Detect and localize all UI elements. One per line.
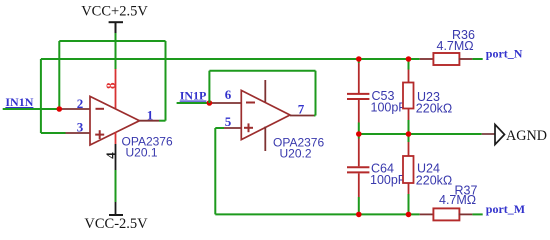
svg-text:U20.2: U20.2 — [280, 147, 312, 161]
capacitor C64 vertical top — [358, 134, 360, 139]
resistor R37 right lead — [459, 213, 473, 215]
power symbol VCC+2.5V — [109, 22, 123, 33]
pin 3 stub — [66, 132, 91, 134]
svg-text:IN1P: IN1P — [180, 89, 207, 103]
wire IN1P — [177, 102, 210, 104]
resistor U23 top lead — [408, 59, 410, 70]
svg-text:4: 4 — [103, 152, 118, 159]
capacitor C64 plates — [347, 166, 369, 168]
wire output2 green — [314, 115, 316, 117]
wire vertical x209 — [208, 71, 210, 103]
op-amp U20.2 minus — [246, 102, 255, 104]
svg-text:5: 5 — [225, 114, 232, 129]
wire pin5 vertical — [214, 128, 216, 214]
wire bottom rail — [215, 213, 419, 215]
wire vertical x315 — [315, 71, 317, 116]
op-amp U20.1 plus — [95, 130, 104, 139]
wire vertical x59 — [58, 41, 60, 109]
junction U23 top — [406, 56, 412, 62]
op-amp U20.1 triangle — [90, 96, 140, 145]
op-amp U20.2 triangle — [241, 90, 290, 139]
svg-text:1: 1 — [147, 107, 154, 122]
resistor U24 body — [403, 156, 414, 183]
svg-text:U20.1: U20.1 — [126, 146, 158, 160]
svg-text:8: 8 — [103, 82, 118, 89]
wire to port_M — [472, 213, 482, 215]
resistor R37 left lead — [420, 213, 433, 215]
svg-text:VCC-2.5V: VCC-2.5V — [84, 216, 148, 232]
wire to port_N — [472, 58, 482, 60]
svg-text:VCC+2.5V: VCC+2.5V — [81, 4, 148, 20]
pin 4 wire black lower — [115, 202, 117, 215]
junction U23 bottom — [406, 131, 412, 137]
wire middle rail — [359, 133, 482, 135]
power port AGND triangle — [495, 125, 505, 145]
op-amp U20.2 power stub top — [264, 80, 266, 102]
wire output1 green — [159, 120, 166, 122]
svg-text:port_N: port_N — [486, 47, 523, 61]
pin 4 wire black upper — [115, 144, 117, 170]
svg-text:6: 6 — [225, 87, 232, 102]
junction C53 top — [356, 56, 362, 62]
junction C53 bottom — [356, 131, 362, 137]
pin 6 stub — [209, 102, 241, 104]
wire vertical x165 — [165, 41, 167, 121]
wire feedback rail 1 — [59, 40, 165, 42]
resistor R36 right lead — [459, 58, 473, 60]
resistor U24 top lead — [408, 134, 410, 142]
junction C64 bottom — [356, 212, 362, 218]
capacitor C53 vertical top — [358, 59, 360, 63]
resistor R37 body — [433, 208, 459, 220]
resistor R36 left lead — [420, 58, 433, 60]
pin 2 stub — [59, 108, 90, 110]
wire IN1N — [3, 108, 60, 110]
resistor U23 bottom lead — [408, 109, 410, 121]
pin 8 stub — [115, 69, 117, 109]
svg-text:220kΩ: 220kΩ — [416, 102, 452, 116]
resistor U24 bottom lead — [408, 183, 410, 194]
svg-text:100pF: 100pF — [371, 101, 407, 115]
wire power vertical green segment — [115, 33, 117, 69]
svg-text:7: 7 — [298, 102, 305, 117]
svg-text:100pF: 100pF — [370, 173, 406, 187]
junction U24 bottom — [406, 212, 412, 218]
svg-text:port_M: port_M — [486, 202, 525, 216]
svg-text:4.7MΩ: 4.7MΩ — [439, 193, 476, 207]
svg-text:220kΩ: 220kΩ — [416, 174, 452, 188]
svg-text:IN1N: IN1N — [5, 95, 33, 109]
svg-text:2: 2 — [77, 96, 84, 111]
op-amp U20.2 plus — [244, 123, 253, 132]
wire rail 2 — [41, 58, 420, 60]
capacitor C53 plates — [347, 93, 369, 95]
pin 5 stub — [224, 127, 241, 129]
pin 4 wire green — [115, 170, 117, 202]
wire pin5 green — [215, 127, 224, 129]
power symbol VCC-2.5V bar — [109, 214, 123, 216]
op-amp U20.1 minus — [96, 108, 105, 110]
resistor U23 body — [403, 83, 414, 109]
wire middle rail dark segment — [482, 133, 495, 135]
op-amp U20.2 power stub bottom — [264, 127, 266, 152]
capacitor C64 vertical bottom — [358, 173, 360, 197]
wire pin3 green — [41, 132, 66, 134]
pin 4 stub — [115, 132, 117, 144]
svg-text:AGND: AGND — [506, 128, 547, 144]
capacitor C53 vertical bottom — [358, 100, 360, 123]
junction node IN1N — [57, 106, 63, 112]
pin 7 stub — [290, 115, 314, 117]
wire vertical x41 — [40, 59, 42, 133]
pin 1 stub — [140, 120, 160, 122]
wire feedback rail 2 — [209, 70, 315, 72]
svg-text:3: 3 — [77, 120, 84, 135]
svg-text:4.7MΩ: 4.7MΩ — [437, 39, 474, 53]
junction node IN1P — [207, 100, 213, 106]
resistor R36 body — [433, 53, 459, 65]
